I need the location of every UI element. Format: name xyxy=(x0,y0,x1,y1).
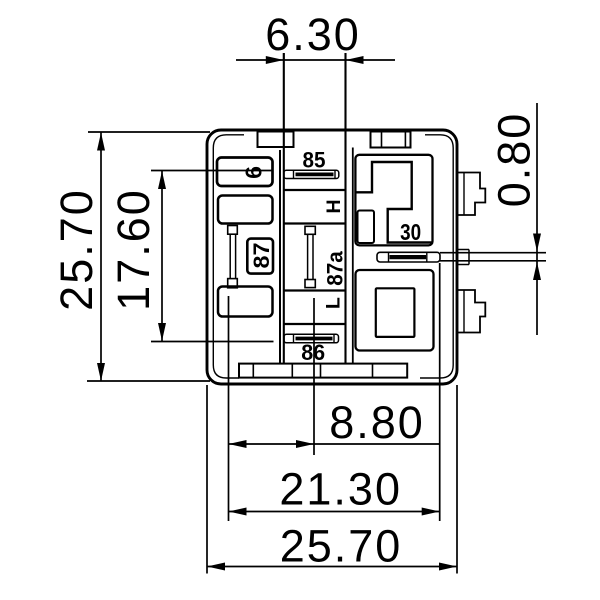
svg-text:0.80: 0.80 xyxy=(488,112,539,208)
svg-text:21.30: 21.30 xyxy=(279,464,402,515)
svg-text:30: 30 xyxy=(400,219,421,245)
svg-text:8.80: 8.80 xyxy=(329,397,425,448)
svg-text:85: 85 xyxy=(303,148,326,173)
svg-text:H: H xyxy=(323,199,345,213)
svg-text:86: 86 xyxy=(301,340,325,365)
svg-text:25.70: 25.70 xyxy=(51,188,102,311)
svg-text:17.60: 17.60 xyxy=(108,188,159,311)
svg-text:6: 6 xyxy=(240,166,266,179)
svg-text:25.70: 25.70 xyxy=(280,521,403,572)
svg-text:87a: 87a xyxy=(322,251,347,286)
svg-text:L: L xyxy=(323,297,345,309)
svg-text:6.30: 6.30 xyxy=(265,9,361,60)
svg-text:87: 87 xyxy=(249,243,274,269)
